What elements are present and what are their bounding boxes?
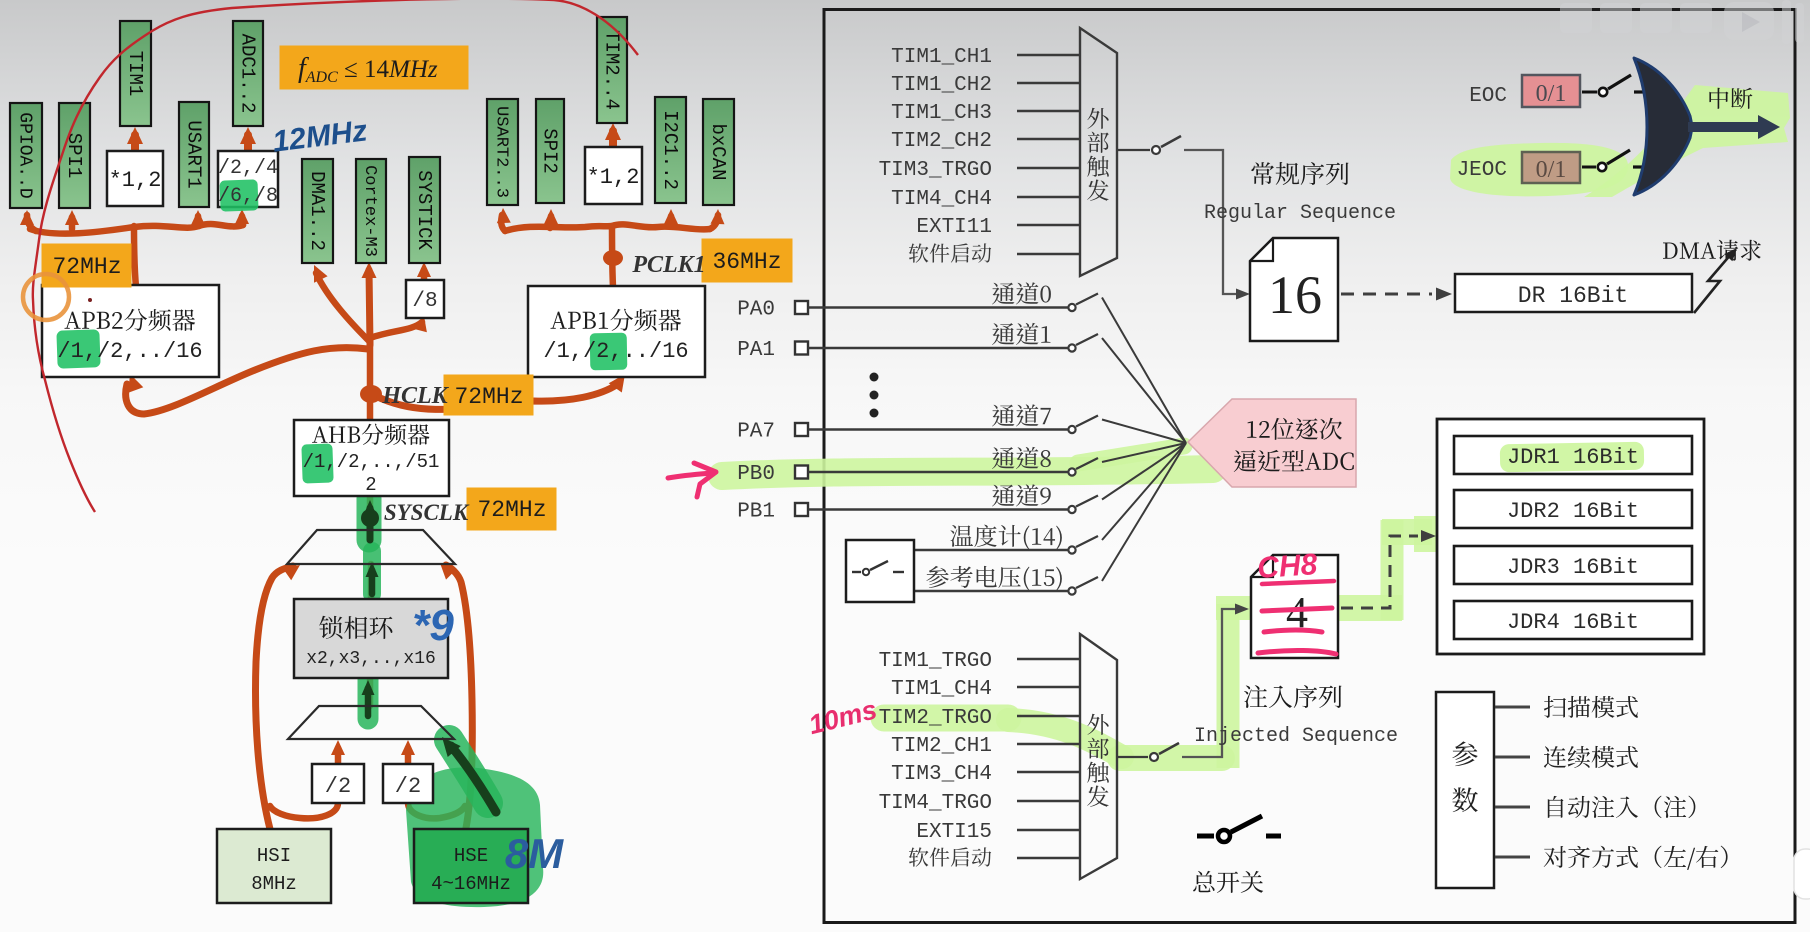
svg-text:12MHz: 12MHz (271, 114, 369, 158)
highlight marker HSE to mux2 (449, 740, 488, 803)
wire to ADC fan point (1102, 443, 1186, 581)
box 36MHz PCLK1 (702, 239, 792, 282)
svg-text:Cortex-M3: Cortex-M3 (360, 165, 379, 257)
wire arrow to SPI2 (550, 216, 551, 228)
wire arrow *1,2 to TIM2..4 (609, 131, 617, 146)
label 通道1 (992, 323, 1050, 345)
svg-text:x2,x3,..,x16: x2,x3,..,x16 (306, 649, 436, 669)
wire APB2 bus horizontal (30, 224, 243, 234)
label 软件启动 upper (909, 243, 991, 262)
wire mux output (1118, 149, 1150, 151)
highlight marker AHB-mux (357, 498, 382, 540)
box DR 16Bit (1455, 274, 1692, 312)
svg-text:ADC1..2: ADC1..2 (236, 34, 258, 114)
svg-text:PCLK1: PCLK1 (631, 252, 705, 278)
mux SYSCLK selector trapezoid (287, 530, 455, 564)
label 注入序列 (1244, 685, 1342, 708)
label 连续模式 (1544, 746, 1638, 768)
svg-text:*9: *9 (412, 601, 454, 650)
wire arrow /8 to SYSTICK (421, 270, 428, 279)
label 中断 (1709, 88, 1752, 109)
wire channel line 通道0 (808, 306, 1068, 308)
svg-text:Regular Sequence: Regular Sequence (1204, 202, 1396, 225)
switch channel 通道0 (1068, 304, 1075, 311)
annotation pink arrow at PB0 (668, 473, 712, 478)
svg-text:TIM2_TRGO: TIM2_TRGO (879, 707, 992, 730)
svg-text:72MHz: 72MHz (454, 384, 523, 410)
wire stub 扫描模式 (1495, 706, 1530, 709)
highlight /1 green in AHB (301, 443, 333, 483)
wire arrow *1,2 to TIM1 (131, 135, 139, 150)
wire channel line 温度计(14) (914, 549, 1068, 551)
annotation orange ring (23, 274, 69, 320)
box HSE 4~16MHz (414, 829, 528, 903)
wire channel line 通道1 (808, 347, 1068, 349)
svg-text:/2: /2 (395, 774, 421, 799)
wire trigger input row 8 lower (1017, 857, 1079, 860)
wire arrow to GPIOA..D (27, 215, 36, 231)
pen dot SYSCLK node (361, 509, 379, 527)
highlight marker blob over HSE box (406, 767, 543, 907)
highlight injected data path to JDR (1332, 595, 1402, 621)
svg-text:/1,/2,../16: /1,/2,../16 (57, 339, 202, 364)
box APB2 divider (42, 285, 219, 377)
wire to ADC fan point (1102, 420, 1186, 444)
svg-text:/2: /2 (325, 774, 351, 799)
svg-text:TIM2_CH2: TIM2_CH2 (891, 130, 992, 153)
wire channel line 通道8 (808, 471, 1068, 473)
pen arrow PLL out to mux (369, 570, 376, 594)
pen arrow SYSCLK into AHB (367, 508, 374, 540)
wire trigger input row 8 upper (1017, 253, 1079, 256)
box AHB divider (294, 420, 449, 496)
svg-text:PA1: PA1 (737, 339, 775, 362)
switch channel 通道9 (1068, 506, 1075, 513)
switch channel 参考电压(15) (1068, 587, 1075, 594)
label 外部触发 upper (1087, 108, 1109, 201)
box TIM1 multiplier *1,2 (107, 151, 163, 206)
wire curve HCLK to APB1 divider (passes behind 72MHz box) (380, 384, 618, 409)
svg-text:TIM4_TRGO: TIM4_TRGO (879, 792, 992, 815)
box JEOC flag 0/1 (1522, 152, 1580, 183)
box bxCAN (703, 99, 734, 205)
block 12-bit SAR ADC pentagon (1188, 399, 1356, 487)
svg-text:TIM4_CH4: TIM4_CH4 (891, 188, 992, 211)
svg-text:72MHz: 72MHz (477, 497, 546, 523)
label 通道0 (992, 282, 1051, 304)
box injected sequence doc 4 (1251, 555, 1338, 658)
pen arrow into PLL (365, 688, 372, 716)
wire to ADC fan point (1102, 338, 1186, 443)
label 参考电压(15) (926, 566, 1062, 591)
box Cortex-M3 (356, 159, 386, 263)
wire arrow /2,/4 to ADC1..2 (244, 135, 252, 150)
svg-text:SPI2: SPI2 (538, 128, 560, 174)
wire trigger input row 7 upper (1017, 224, 1079, 227)
label 通道9 (992, 484, 1051, 506)
wire to ADC fan point (1102, 298, 1186, 444)
box regular sequence doc 16 (1250, 238, 1338, 341)
svg-text:TIM2_CH1: TIM2_CH1 (891, 735, 992, 758)
svg-text:DMA1..2: DMA1..2 (306, 171, 328, 251)
svg-text:TIM3_CH4: TIM3_CH4 (891, 763, 992, 786)
box 72MHz HCLK (444, 375, 533, 415)
wire trigger input row 2 upper (1017, 82, 1079, 85)
box USART2..3 (487, 99, 518, 205)
svg-text:I2C1..2: I2C1..2 (659, 110, 681, 190)
svg-text:36MHz: 36MHz (712, 249, 781, 275)
wire trigger input row 1 lower (1017, 658, 1079, 661)
svg-text:8M: 8M (505, 830, 564, 877)
highlight JDR1 text (1500, 442, 1644, 473)
node PCLK1 junction dot (603, 250, 623, 266)
svg-text:bxCAN: bxCAN (707, 123, 729, 180)
switch channel 温度计(14) (1068, 546, 1075, 553)
box /2 HSI prescaler (312, 764, 364, 803)
wire stub 连续模式 (1495, 756, 1530, 759)
svg-text:JDR2 16Bit: JDR2 16Bit (1507, 499, 1639, 524)
label 常规序列 (1251, 162, 1348, 185)
box USART1 (179, 102, 209, 207)
box APB1 divider (528, 286, 705, 377)
mux injected external trigger (1080, 634, 1117, 879)
wire channel line 通道9 (808, 508, 1068, 510)
box DMA1..2 (302, 159, 333, 263)
svg-text:HSI: HSI (257, 845, 291, 867)
svg-text:PA7: PA7 (737, 421, 775, 444)
box I2C1..2 (655, 97, 686, 203)
wire switch to injected doc (1182, 609, 1236, 757)
svg-text:TIM1_CH1: TIM1_CH1 (891, 46, 992, 69)
svg-text:/2,/4: /2,/4 (218, 157, 278, 180)
wire stub 自动注入（注） (1495, 806, 1530, 809)
frame ADC block boundary (824, 10, 1795, 923)
wire to /8 box (370, 322, 422, 338)
wire long curve HCLK to APB2 divider (126, 348, 368, 414)
svg-text:JEOC: JEOC (1457, 159, 1507, 182)
svg-text:Injected Sequence: Injected Sequence (1194, 725, 1398, 748)
box /2 HSE prescaler (383, 764, 433, 803)
wire hand-drawn red curve (33, 0, 638, 512)
wire dashed 4 to JDR (1341, 536, 1418, 608)
label 自动注入（注） (1548, 796, 1696, 818)
switch 总开关 master (1197, 834, 1214, 839)
box PLL 锁相环 (294, 599, 448, 678)
arrow DMA request lightning (1694, 253, 1732, 313)
highlight marker mux-PLL (363, 551, 381, 594)
watermark bilibili (1560, 0, 1804, 44)
wire trigger input row 3 lower (1017, 715, 1079, 718)
wire arrow to I2C1..2 (671, 216, 672, 226)
wire arrow to SPI1 (69, 217, 76, 229)
wire arrow /2 left to mux (335, 748, 342, 764)
wire trigger input row 5 lower (1017, 771, 1079, 774)
wire elbow /2 left from HSI riser (270, 803, 338, 818)
mux regular external trigger (1080, 28, 1117, 276)
wire dashed 16 to DR (1341, 293, 1432, 296)
arrow interrupt output (1688, 122, 1760, 132)
wire trigger input row 1 upper (1017, 54, 1079, 57)
wire PLL bottom to lower mux (367, 679, 374, 706)
node HCLK junction dot (360, 385, 382, 403)
svg-text:TIM1_TRGO: TIM1_TRGO (879, 650, 992, 673)
svg-text:0/1: 0/1 (1536, 81, 1567, 107)
box 72MHz APB2 (42, 244, 131, 287)
svg-text:USART1: USART1 (182, 120, 204, 188)
svg-text:TIM2..4: TIM2..4 (600, 30, 622, 110)
svg-text:SYSCLK: SYSCLK (384, 500, 470, 525)
box /8 SYSTICK prescaler (406, 280, 444, 318)
wire to ADC fan point (1102, 443, 1186, 540)
svg-text:4~16MHz: 4~16MHz (431, 873, 511, 895)
highlight channel8 row band (722, 469, 1213, 476)
wire trigger input row 3 upper (1017, 110, 1079, 113)
svg-text:EXTI15: EXTI15 (916, 821, 992, 844)
svg-text:2: 2 (365, 474, 376, 496)
highlight interrupt blob (1584, 85, 1790, 197)
box fADC<=14MHz formula (280, 46, 468, 89)
label 温度计(14) (950, 525, 1061, 550)
box JDR1 16Bit (1454, 436, 1692, 474)
svg-text:DR 16Bit: DR 16Bit (1518, 283, 1628, 309)
highlight /1 green in APB2 (56, 329, 100, 368)
wire AHB output to SYSCLK mux (367, 497, 374, 532)
svg-text:CH8: CH8 (1256, 548, 1318, 585)
wire arrow to USART2..3 (501, 215, 505, 231)
svg-text:HCLK: HCLK (381, 383, 449, 409)
box 参数 parameters (1436, 692, 1494, 888)
svg-text:/1,/2,..,/51: /1,/2,..,/51 (303, 451, 440, 473)
box JDR4 16Bit (1454, 601, 1692, 639)
svg-text:*1,2: *1,2 (109, 168, 162, 193)
wire elbow /2 right from HSE riser (408, 803, 465, 818)
svg-text:/1,/2,../16: /1,/2,../16 (543, 339, 688, 364)
svg-text:0/1: 0/1 (1536, 157, 1567, 183)
node ellipsis dots (870, 373, 879, 382)
label 外部触发 lower (1087, 714, 1109, 807)
wire arrow to ADC prescaler /6 (242, 216, 243, 225)
wire stub 对齐方式（左/右） (1495, 856, 1530, 859)
gate OR interrupt (1634, 58, 1692, 195)
wire arrow to DMA1..2 (316, 273, 370, 342)
wire arrow to bxCAN (710, 215, 718, 229)
svg-text:TIM1_CH4: TIM1_CH4 (891, 678, 992, 701)
svg-text:*1,2: *1,2 (587, 165, 640, 190)
label 通道7 (992, 404, 1051, 426)
svg-text:/6,/8: /6,/8 (218, 185, 278, 208)
svg-text:10ms: 10ms (806, 694, 880, 740)
box TIM1 (120, 21, 151, 126)
label DMA请求 (1663, 240, 1761, 261)
ui overlay white pill (1794, 849, 1810, 899)
wire trigger input row 4 lower (1017, 743, 1079, 746)
wire mux to PLL top (368, 564, 375, 599)
wire HCLK trunk (367, 340, 374, 419)
wire channel line 参考电压(15) (914, 590, 1068, 592)
switch channel 通道8 (1068, 468, 1075, 475)
svg-text:JDR1 16Bit: JDR1 16Bit (1507, 445, 1639, 470)
label 总开关 (1193, 871, 1263, 893)
svg-text:72MHz: 72MHz (52, 254, 121, 280)
wire APB1 bus trunk (612, 226, 613, 287)
svg-text:SYSTICK: SYSTICK (413, 170, 435, 250)
box TIM2..4 multiplier *1,2 (585, 147, 642, 204)
switch EOC (1582, 91, 1597, 94)
svg-text:/8: /8 (412, 290, 437, 313)
wire lower mux output (1118, 756, 1148, 758)
svg-text:PA0: PA0 (737, 299, 775, 322)
svg-text:TIM3_TRGO: TIM3_TRGO (879, 159, 992, 182)
svg-text:TIM1_CH2: TIM1_CH2 (891, 74, 992, 97)
highlight JEOC blob (1450, 143, 1628, 196)
svg-text:TIM1_CH3: TIM1_CH3 (891, 102, 992, 125)
svg-text:USART2..3: USART2..3 (492, 106, 511, 198)
box SPI1 (59, 103, 90, 208)
svg-text:PB0: PB0 (737, 463, 775, 486)
wire trigger input row 7 lower (1017, 829, 1079, 832)
svg-text:HSE: HSE (454, 845, 488, 867)
switch regular trigger (1152, 146, 1160, 154)
box GPIOA..D (10, 103, 42, 208)
wire to ADC fan point (1102, 443, 1186, 500)
box JDR outer (1437, 419, 1704, 654)
switch injected trigger (1150, 753, 1158, 761)
switch channel 通道7 (1068, 426, 1075, 433)
wire trigger input row 4 upper (1017, 138, 1079, 141)
wire HSE riser to SYSCLK mux (446, 565, 472, 828)
wire arrow /2 right to mux (405, 748, 412, 764)
wire trigger input row 6 lower (1017, 800, 1079, 803)
wire trigger input row 2 lower (1017, 686, 1079, 689)
switch channel 通道1 (1068, 344, 1075, 351)
svg-text:JDR3 16Bit: JDR3 16Bit (1507, 555, 1639, 580)
wire trigger input row 5 upper (1017, 167, 1079, 170)
box EOC flag 0/1 (1522, 75, 1580, 107)
wire APB1 bus horizontal (505, 224, 710, 231)
svg-text:PB1: PB1 (737, 501, 775, 524)
box HSI 8MHz (217, 829, 331, 903)
svg-text:EXTI11: EXTI11 (916, 216, 992, 239)
switch JEOC (1582, 166, 1596, 169)
label 对齐方式（左/右） (1544, 846, 1728, 870)
svg-text:EOC: EOC (1469, 85, 1507, 108)
svg-text:8MHz: 8MHz (251, 873, 297, 895)
highlight marker PLL-mux2 (358, 668, 379, 719)
label 扫描模式 (1544, 696, 1638, 718)
wire HSI riser to SYSCLK mux (256, 566, 293, 829)
mux PLL source selector trapezoid (288, 706, 454, 739)
wire APB2 bus trunk (134, 226, 136, 287)
wire arrow to Cortex-M3 (369, 270, 370, 345)
box SYSTICK (409, 157, 440, 263)
svg-text:GPIOA..D: GPIOA..D (15, 112, 35, 198)
box ADC1..2 (233, 21, 263, 126)
label 通道8 (992, 447, 1051, 469)
wire switch to sequence doc (1184, 150, 1237, 294)
box JDR2 16Bit (1454, 490, 1692, 528)
box sensor enable switch (846, 540, 914, 602)
svg-text:TIM1: TIM1 (124, 51, 146, 97)
box ADC prescaler /2,/4 /6,/8 (218, 151, 278, 207)
label 软件启动 lower (909, 847, 991, 866)
highlight /2 green in APB1 (590, 333, 628, 371)
box TIM2..4 (597, 17, 627, 123)
wire to ADC fan point (1102, 443, 1186, 462)
wire trigger input row 6 upper (1017, 196, 1079, 199)
highlight /6 green (219, 179, 258, 211)
svg-text:16: 16 (1268, 265, 1322, 325)
box 72MHz SYSCLK (467, 488, 556, 530)
wire channel line 通道7 (808, 428, 1068, 430)
pen arrow HSE direct to mux2 (451, 746, 496, 812)
box JDR3 16Bit (1454, 546, 1692, 584)
highlight TIM2_TRGO injected path (884, 705, 1008, 732)
box SPI2 (536, 99, 564, 203)
svg-text:JDR4 16Bit: JDR4 16Bit (1507, 610, 1639, 635)
wire arrow to USART1 (198, 216, 199, 226)
